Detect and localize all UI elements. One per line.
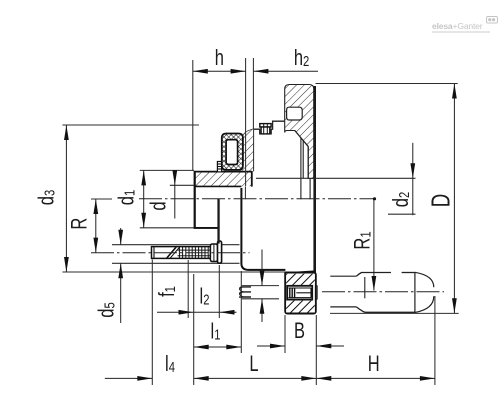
- boss front chamfer marks: [316, 285, 317, 300]
- extension line: d2 top horizontal: [256, 177, 416, 179]
- extension line: wheel back face vertical: [193, 274, 195, 385]
- extension line: D top horizontal: [316, 83, 458, 85]
- dim f1 l2: shared line with outside arrows: [157, 311, 237, 313]
- svg-text:h: h: [215, 46, 224, 71]
- extension line: shaft end vertical: [151, 260, 153, 386]
- svg-text:m: m: [232, 285, 257, 299]
- boss top slope line: [285, 271, 315, 273]
- handle neck bottom line: [330, 306, 356, 308]
- elastomer cap (cross-hatched cup): [222, 134, 243, 170]
- dim L: line with arrows: [194, 377, 317, 379]
- handle axis centerline (dash-dot): [322, 291, 444, 293]
- extension line: R top tick: [91, 198, 112, 200]
- pin inner lines: [263, 124, 265, 134]
- bushing silhouette bottom line: [112, 262, 240, 264]
- svg-text:D: D: [425, 194, 455, 208]
- handle dome base: [414, 272, 416, 312]
- extension line: B left vertical: [284, 315, 286, 353]
- extension line: m bottom tick: [242, 298, 279, 300]
- bushing silhouette top line: [112, 244, 240, 246]
- extension line: l2 right vertical: [218, 265, 220, 318]
- cap inner pocket (white): [226, 140, 238, 165]
- dim d1: vertical line with arrows: [143, 170, 145, 227]
- svg-text:elesa+Ganter: elesa+Ganter: [432, 21, 483, 31]
- dim R: vertical line with arrows: [95, 199, 97, 253]
- dim D: vertical line with arrows: [453, 84, 455, 314]
- rim inner slope edge: [295, 131, 308, 147]
- shaft break diagonals: [167, 247, 176, 258]
- extension line: d1 top tick: [140, 169, 194, 171]
- dim d3: vertical line with arrows: [65, 125, 67, 272]
- handle grip inner left edge: [364, 277, 366, 298]
- set screw hex socket lines: [289, 288, 291, 298]
- dim l1: line with arrows: [194, 346, 242, 348]
- hub bore end vertical: [244, 186, 246, 199]
- set screw body: [287, 286, 312, 300]
- handle neck top line: [330, 275, 356, 277]
- rim groove pocket (white): [287, 107, 303, 120]
- boss hatch bottom: [286, 301, 315, 313]
- dim d5: vertical line outside arrows: [120, 228, 122, 245]
- hub flange band section (hatched): [195, 172, 251, 186]
- extension line: m top tick: [242, 285, 279, 287]
- front hub-cap lines left pair: [300, 138, 302, 200]
- retaining pin body: [261, 127, 270, 134]
- dim m: vertical outside arrows: [261, 250, 263, 286]
- extension line: D bottom horizontal: [330, 312, 459, 314]
- cap spring (small coil): [217, 162, 221, 172]
- dim H: line with arrows: [316, 377, 435, 379]
- svg-text:d: d: [146, 201, 171, 210]
- extension line: l1 right vertical: [240, 271, 242, 353]
- dim d: vertical line outside arrows: [174, 170, 176, 219]
- wheel back face line curving to dish bottom (thick): [241, 188, 285, 270]
- extension line: h left vertical: [192, 60, 194, 171]
- hub left face (thick): [194, 171, 196, 229]
- wheel axis centerline (dash-dot): [139, 198, 375, 200]
- web column section (hatched): [242, 129, 254, 171]
- extension line: d2 bottom tick: [388, 213, 416, 215]
- web column right edge: [253, 129, 255, 171]
- svg-text:H: H: [368, 352, 380, 377]
- handle dome arcs: [415, 272, 434, 312]
- wheel front face (thick): [313, 86, 316, 314]
- hub bottom edge (thick): [194, 227, 218, 229]
- hub-to-bushing step bar: [217, 199, 219, 244]
- boss hatch top: [286, 274, 315, 285]
- hub top edge (thick): [194, 171, 252, 173]
- extension line: h right pair verticals: [245, 58, 247, 186]
- thread crest ticks: [179, 247, 208, 258]
- plunger shaft body: [152, 247, 211, 259]
- dim d2: vertical line with down arrow: [412, 143, 414, 215]
- svg-text:R: R: [67, 218, 92, 230]
- extension line: B right / H left vertical: [315, 315, 317, 385]
- hub right step (thick): [251, 171, 253, 187]
- svg-text:L: L: [249, 352, 258, 377]
- wheel rim section (hatched): [285, 85, 314, 179]
- handle grip outline bottom: [356, 307, 415, 312]
- shaft nut: [210, 244, 217, 262]
- web top profile: shoulder arc and edges: [242, 121, 285, 140]
- shaft end cap line: [153, 247, 155, 258]
- retaining pin on web (top lip): [260, 124, 271, 127]
- svg-text:B: B: [294, 319, 305, 344]
- dim h2: line and left arrow: [253, 70, 318, 72]
- extension line: H right vertical (handle end): [434, 296, 436, 385]
- extension line: d3 top horizontal: [62, 124, 199, 126]
- bushing flange: [218, 241, 222, 263]
- handle boss outline: [285, 273, 316, 314]
- dim B: outside arrows: [257, 345, 285, 347]
- front hub-cap lines right pair: [307, 147, 309, 179]
- handle grip outline top: [356, 273, 391, 277]
- plunger axis centerline (dash-dot): [91, 252, 250, 254]
- dim R1: leader with dot and arrow: [373, 199, 375, 291]
- hub band bottom edge: [195, 185, 241, 187]
- set screw axis slot line: [296, 292, 311, 294]
- extension line: d3 bottom horizontal: [62, 271, 285, 273]
- thread root lines: [178, 249, 211, 251]
- dim l4: left outside arrow: [105, 377, 153, 379]
- extension line: d top tick: [170, 184, 194, 186]
- extension line: f1 inner vertical: [187, 260, 189, 318]
- extension line: d1 bottom tick: [140, 227, 194, 229]
- dim h: line and arrows: [193, 70, 246, 72]
